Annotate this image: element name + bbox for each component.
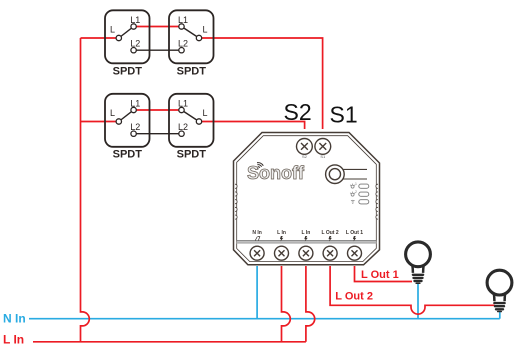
svg-text:L Out 2: L Out 2 [322,230,339,236]
U1 LED icon 2 [350,192,355,197]
wire: N In bus horizontal (blue) [29,318,500,320]
svg-text:L1: L1 [130,15,140,25]
svg-text:SPDT: SPDT [177,149,207,161]
svg-text:N In: N In [3,312,26,326]
svg-text:S1: S1 [330,102,358,128]
svg-text:L1: L1 [178,15,188,25]
svg-text:L1: L1 [130,99,140,109]
wire: device N In terminal drop (blue) [256,266,258,319]
wire: traveller L2-L2 pair 1 (dark, idle) [134,49,182,51]
U1 terminal L Out 2 [323,246,337,260]
wire: L Out 1 run to lamp LP1 (red) [355,266,413,282]
U1 pairing button (keyhole) [326,165,367,184]
svg-text:L Out 1: L Out 1 [361,269,399,281]
wire: feed stub to SW1 L terminal [81,37,119,39]
wire: SW2 L to S1 terminal (red) [199,38,323,129]
switch SW4 (SPDT, pair 2 right) [169,94,214,161]
wire: device L In terminal 2 drop (red, hop over N bus) [282,266,291,342]
svg-text:1: 1 [355,182,357,186]
U1 terminal N In [250,246,264,260]
wire: lamp LP2 neutral drop (blue) [499,312,501,319]
svg-text:SPDT: SPDT [113,66,143,78]
svg-text:L In: L In [277,230,286,236]
lamp LP2 (bulb, L Out 2) [487,270,512,312]
wire: feed stub to SW3 L terminal [81,121,119,123]
U1 inner case line [237,136,377,262]
U1 LED indicator 2 [359,192,369,196]
U1 pin symbol N [255,237,260,241]
U1 LED icon 3 wifi [351,200,355,204]
svg-text:N In: N In [252,230,261,236]
wire: L feed vertical from supply (red, with hop over N bus) [81,38,90,342]
svg-text:L Out 2: L Out 2 [335,291,373,303]
svg-text:Sonoff: Sonoff [247,163,305,183]
U1 pin symbol bolt L Out 2 [329,236,332,242]
U1 pin symbol bolt L Out 1 [353,236,356,242]
svg-text:L2: L2 [178,122,188,132]
svg-text:SPDT: SPDT [177,66,207,78]
U1 pin symbol bolt L In 2 [280,236,283,242]
U1 terminal S2 [297,139,313,155]
wire: traveller L2-L2 pair 2 (dark, idle) [134,133,182,135]
switch SW1 (SPDT, pair 1 left) [105,10,150,77]
U1 LED icon 1 [350,184,355,189]
U1 left edge clip bumps [235,184,237,219]
U1 pin symbol bolt L In 3 [304,236,307,242]
U1 right edge clip bumps [376,184,378,219]
wire: traveller L1-L1 pair 2 (red, live) [134,109,182,111]
U1 bottom terminal labels [252,230,363,236]
wire: L Out 2 run to lamp LP2 (red, hop over LP1 neutral) [330,266,494,314]
wire: L In bus horizontal (red) [33,341,306,343]
svg-text:L In: L In [302,230,311,236]
switch SW2 (SPDT, pair 1 right) [169,10,214,77]
U1 terminal L In 2 [275,246,289,260]
svg-text:2: 2 [355,190,357,194]
U1 terminal L Out 1 [348,246,362,260]
wire: lamp LP1 neutral drop (blue) [417,283,419,318]
svg-text:L In: L In [3,333,24,347]
svg-text:L: L [202,108,207,118]
svg-text:L: L [110,25,115,35]
U1 LED indicator 1 [359,184,369,188]
U1 outer case outline [234,133,380,265]
svg-text:L1: L1 [178,99,188,109]
svg-text:L2: L2 [130,39,140,49]
svg-text:L: L [202,25,207,35]
svg-text:S2: S2 [302,154,308,159]
relay module U1 (Sonoff Dual R3) [234,133,380,265]
switch SW3 (SPDT, pair 2 left) [105,94,150,161]
wire: SW4 L to S2 terminal (red) [199,122,305,130]
svg-text:S2: S2 [284,99,312,125]
lamp LP1 (bulb, L Out 1) [406,242,431,284]
U1 terminal S1 [315,139,331,155]
U1 terminal strip separator [237,240,377,242]
svg-text:L Out 1: L Out 1 [346,230,363,236]
U1 terminal L In 3 [299,246,313,260]
U1 LED indicator 3 (wifi) [359,200,369,204]
svg-text:L: L [110,108,115,118]
U1 logo wifi mark [257,163,263,170]
svg-text:SPDT: SPDT [113,149,143,161]
svg-text:S1: S1 [320,154,326,159]
wire: traveller L1-L1 pair 1 (red, live) [134,26,182,28]
wire: device L In terminal 3 drop (red, hop over N bus) [306,266,315,342]
svg-text:L2: L2 [178,39,188,49]
svg-text:L2: L2 [130,122,140,132]
